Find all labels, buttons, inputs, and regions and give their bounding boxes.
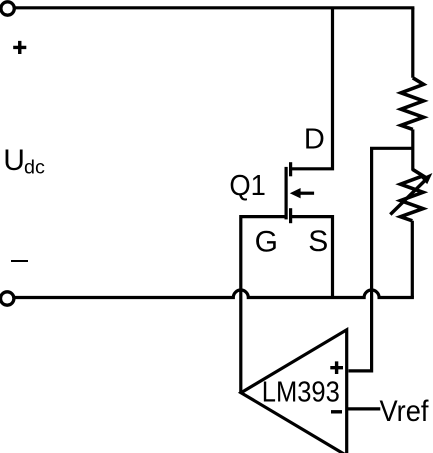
potentiometer R2 (variable resistor zigzag) (401, 169, 424, 221)
svg-text:Vref: Vref (380, 395, 430, 428)
label - (comparator inverting input) (331, 410, 342, 413)
resistor R1 (401, 78, 424, 130)
wire source: Q1 S pin down to bottom rail (291, 217, 333, 298)
label - (bottom-left supply polarity) (11, 260, 28, 262)
wire divider tap to comparator + input (hops over bottom rail) (349, 148, 412, 371)
wire gate: Q1 G pin to comparator output (passes under rail hop) (241, 217, 286, 393)
potentiometer R2 arrow head (421, 173, 432, 184)
wire top rail (from + terminal to right branch) (14, 6, 414, 9)
label + (top-left supply polarity) (13, 41, 26, 54)
transistor Q1 channel drain tick (289, 162, 292, 176)
svg-text:Q1: Q1 (229, 170, 266, 202)
wire right branch top (top rail corner down to R1) (411, 8, 414, 78)
svg-text:D: D (304, 124, 325, 156)
transistor Q1 gate plate (285, 167, 288, 220)
svg-text:U: U (3, 144, 25, 177)
wire R2 bottom to bottom rail (411, 221, 414, 298)
label + (comparator non-inverting input) (330, 361, 343, 374)
terminal TP2 (bottom-left input -) (1, 292, 14, 305)
svg-text:S: S (308, 225, 328, 258)
wire drain: Q1 D pin up to top rail (291, 8, 333, 169)
wire Vref stub to - input (347, 407, 381, 410)
potentiometer R2 arrow shaft (390, 180, 426, 215)
op-amp U1 LM393 comparator triangle (241, 330, 347, 453)
svg-text:dc: dc (24, 157, 45, 179)
wire bottom rail (hops over gate wire and + input wire) (14, 290, 414, 298)
terminal TP1 (top-left input +) (1, 2, 14, 15)
transistor Q1 body arrow head (290, 188, 301, 198)
svg-text:G: G (255, 225, 278, 258)
transistor Q1 channel source tick (289, 208, 292, 223)
transistor Q1 body arrow shaft (300, 192, 315, 195)
svg-text:LM393: LM393 (262, 376, 340, 408)
wire between R1 and R2 (divider mid node) (411, 129, 414, 170)
